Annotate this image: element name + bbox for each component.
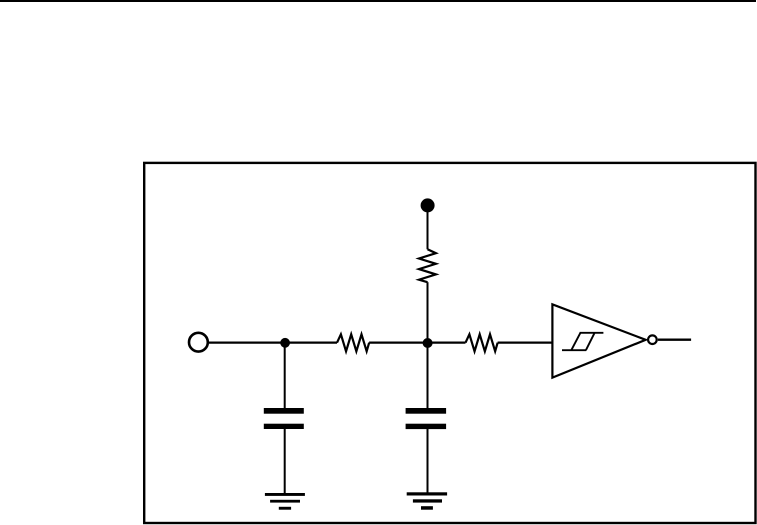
capacitor C1 bbox=[264, 408, 304, 429]
terminal VCC bbox=[421, 198, 435, 212]
ground bbox=[265, 493, 305, 510]
wire bbox=[209, 342, 337, 344]
terminal IN bbox=[189, 333, 208, 352]
wire bbox=[498, 342, 552, 344]
capacitor C2 bbox=[406, 408, 447, 429]
wire bbox=[427, 205, 429, 249]
ground bbox=[407, 492, 447, 509]
wire bbox=[427, 282, 429, 343]
schmitt-trigger inverter U1 bbox=[552, 304, 656, 377]
resistor R1 bbox=[337, 334, 369, 351]
wire bbox=[427, 429, 429, 493]
wire bbox=[658, 339, 691, 341]
resistor R3 bbox=[466, 334, 498, 351]
wire bbox=[427, 343, 429, 408]
wire bbox=[284, 343, 286, 408]
node A bbox=[280, 338, 290, 348]
resistor R2 pull-up bbox=[419, 249, 436, 282]
wire bbox=[284, 429, 286, 494]
node B bbox=[423, 338, 433, 348]
wire bbox=[369, 342, 465, 344]
